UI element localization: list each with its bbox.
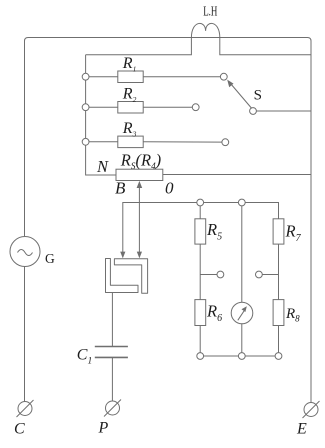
node: junction on inner rail at R3 row [82, 138, 89, 145]
wire: R2 row right segment [143, 106, 192, 108]
wire: middle branch lower [241, 324, 243, 353]
node: left tap open contact [217, 271, 224, 278]
wire: R3 row right segment [143, 141, 222, 143]
wire: R2 row left segment [89, 106, 118, 108]
wire: R1 row right segment to switch contact [143, 76, 220, 78]
node: bridge bottom-left [197, 353, 204, 360]
wire: inner left rail [86, 55, 116, 175]
svg-text:L.H: L.H [203, 3, 217, 18]
inductor LH [191, 23, 219, 37]
terminal C [18, 402, 32, 416]
svg-text:R1: R1 [122, 55, 137, 74]
wire: capacitor to terminal P [111, 357, 113, 401]
wire: left branch lower [199, 326, 201, 353]
svg-text:R6: R6 [206, 302, 222, 325]
svg-text:N: N [96, 157, 109, 176]
wire: switch pivot to right rail [256, 110, 311, 112]
node: switch contact of R3 [222, 139, 229, 146]
svg-text:0: 0 [165, 179, 174, 198]
svg-text:R3: R3 [122, 120, 137, 139]
resistor R1 [118, 71, 143, 83]
node: right tap open contact [256, 271, 263, 278]
terminal P [106, 401, 120, 415]
AC source G [10, 237, 40, 267]
wire: bridge top rail [200, 203, 278, 219]
electrode plate lower (sample holder) [106, 259, 139, 293]
node: bridge top-left [197, 199, 204, 206]
node: switch contact of R1 [220, 73, 227, 80]
svg-text:R5: R5 [206, 220, 222, 243]
wire: R1 row left segment [89, 76, 118, 78]
wire: right branch between R7 and R8 [278, 244, 280, 300]
wire: electrode to capacitor C1 [111, 293, 113, 347]
node: bridge bottom-right [275, 353, 282, 360]
wire: right tap stub [262, 274, 278, 276]
svg-text:C: C [14, 421, 25, 438]
svg-text:G: G [45, 251, 55, 266]
wire: bridge top-left lead to electrode arrow [123, 203, 197, 255]
electrode plate upper (sample holder) [114, 259, 147, 294]
resistor R6 [195, 300, 206, 326]
wire: left tap stub [200, 274, 217, 276]
svg-text:S: S [254, 87, 262, 103]
wire: right branch lower [278, 326, 280, 353]
svg-text:R8: R8 [285, 306, 300, 324]
galvanometer [231, 302, 253, 324]
node: open contact of R2 [192, 104, 199, 111]
resistor R8 [273, 300, 284, 326]
wire: R3 row left segment [89, 141, 118, 143]
svg-text:P: P [98, 420, 109, 437]
wire: inductor right tap down and to right rail [220, 38, 311, 55]
wire: left branch upper [199, 206, 201, 219]
wire: outer top rail from left corner to right corner [25, 38, 312, 403]
node: junction on inner rail at R2 row [82, 104, 89, 111]
wire: Rs right terminal to right rail [163, 174, 311, 176]
wire: left branch between R5 and R6 [199, 244, 201, 300]
svg-text:B: B [115, 179, 126, 198]
node: bridge top-middle [238, 199, 245, 206]
svg-text:E: E [296, 420, 307, 437]
terminal E [304, 403, 318, 417]
node: switch pivot [250, 108, 257, 115]
rheostat Rs(R4) [116, 169, 163, 180]
resistor R5 [195, 219, 206, 244]
switch S blade with arrowhead [231, 84, 252, 109]
wire: G to terminal C [24, 267, 26, 402]
wire: middle branch upper [241, 206, 243, 302]
wire: rheostat wiper arrow down to electrode (double arrowheads) [138, 184, 140, 255]
svg-text:RS(R4): RS(R4) [120, 150, 161, 171]
resistor R7 [273, 219, 284, 244]
capacitor C1 [95, 346, 128, 348]
node: bridge bottom-middle [238, 353, 245, 360]
wire: bridge bottom rail [204, 355, 276, 357]
wire: inductor left tap down and to inner rail [86, 38, 192, 55]
svg-text:R2: R2 [122, 86, 137, 105]
node: junction on inner rail at R1 row [82, 73, 89, 80]
resistor R2 [118, 102, 143, 114]
svg-text:C1: C1 [77, 347, 92, 367]
svg-text:R7: R7 [285, 222, 302, 245]
wire: right branch upper (from top rail corner) [278, 203, 280, 219]
resistor R3 [118, 136, 143, 148]
